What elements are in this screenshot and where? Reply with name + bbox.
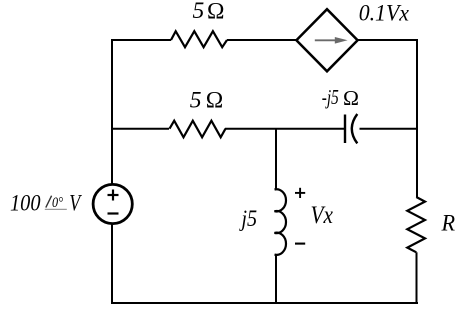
svg-text:Vx: Vx xyxy=(311,202,333,229)
svg-text:j5: j5 xyxy=(239,206,257,232)
resistor R3 load R (vertical) xyxy=(407,197,425,252)
wire: right vertical upper (top node to R3) xyxy=(416,39,418,197)
resistor R1 5 ohm (top) xyxy=(171,31,227,47)
svg-text:-j5: -j5 xyxy=(322,85,339,109)
resistor R2 5 ohm (middle row) xyxy=(170,121,226,138)
svg-text:5: 5 xyxy=(190,88,202,114)
V1 plus sign xyxy=(108,190,119,201)
wire: top-right horizontal (source to right node) xyxy=(358,39,418,41)
wire: centre branch upper (middle row down to L1) xyxy=(275,129,277,190)
svg-text:Ω: Ω xyxy=(206,88,223,114)
dependent current source U1 diamond xyxy=(296,9,357,71)
svg-text:5: 5 xyxy=(193,0,205,24)
label Vx minus xyxy=(295,243,305,245)
wire: left vertical upper (top node to V1) xyxy=(111,39,113,185)
V1 minus sign xyxy=(108,212,119,214)
wire: right vertical lower (R3 to bottom node) xyxy=(416,252,418,304)
wire: middle row left (left node to R2) xyxy=(112,128,169,130)
svg-text:0.1Vx: 0.1Vx xyxy=(359,1,410,26)
capacitor C1 -j5 ohm left plate xyxy=(344,115,346,144)
svg-text:100: 100 xyxy=(10,190,41,215)
arrow inside dependent source xyxy=(315,37,348,44)
inductor L1 j5 xyxy=(275,189,287,255)
wire: middle row right (C1 to right node) xyxy=(360,128,418,130)
wire: left vertical lower (V1 to bottom node) xyxy=(111,224,113,304)
svg-text:Ω: Ω xyxy=(207,0,224,24)
capacitor C1 curved right plate xyxy=(352,114,358,143)
wire: middle row centre (R2 to C1) xyxy=(225,128,344,130)
label V1 value 100 angle 0 V xyxy=(10,190,82,215)
wire: bottom horizontal xyxy=(111,302,418,304)
wire: top-left horizontal (left node to R1) xyxy=(112,39,171,41)
svg-text:0°: 0° xyxy=(52,195,63,211)
label Vx plus xyxy=(295,188,305,198)
svg-text:V: V xyxy=(69,190,82,215)
svg-text:R: R xyxy=(441,211,456,237)
wire: centre branch lower (L1 to bottom node) xyxy=(275,254,277,304)
wire: top middle (R1 to dependent source) xyxy=(227,39,298,41)
voltage source V1 circle xyxy=(93,184,132,223)
svg-text:Ω: Ω xyxy=(343,86,359,110)
